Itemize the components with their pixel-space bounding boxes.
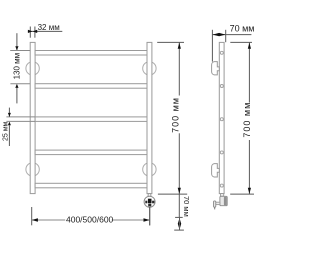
dimension 25mm: rail3 bottom line extended left	[6, 120, 35, 122]
side view: rung end circle 5	[220, 184, 223, 187]
heating element nut center	[148, 199, 152, 203]
dimension 70mm front-bottom: vertical diamond arrows	[178, 218, 181, 230]
side view: vertical tube	[219, 42, 224, 193]
dimension 32mm: right extension line	[34, 27, 36, 38]
side view: valve handle knob	[214, 201, 216, 207]
dimension 25mm: rail3 top line extended left	[6, 116, 35, 118]
dimension 400/500/600: left arrow	[32, 218, 38, 221]
dimension 130mm: lower arrow (up)	[15, 84, 18, 88]
dimension 700mm side: dimension line upper segment	[248, 42, 250, 102]
dimension 70mm front-bottom: lower extension line	[174, 229, 184, 231]
dimension 400/500/600: dimension line	[32, 219, 150, 221]
dimension 130mm: lower tail line	[16, 88, 18, 104]
side view: valve tail	[214, 207, 216, 209]
dimension 25mm: upper line	[8, 108, 10, 117]
side view: rung end circle 2	[220, 85, 223, 88]
left vertical tube (front view)	[30, 42, 35, 193]
dimension 700mm side: bottom extension line	[230, 193, 254, 195]
side view: valve handle stem	[215, 202, 220, 204]
heating element nut right lug	[152, 201, 154, 204]
dimension 70mm front-bottom: dimension line	[178, 194, 180, 217]
side view: lower wall bracket plate	[212, 164, 220, 177]
svg-text:700 мм: 700 мм	[242, 102, 252, 138]
dimension 400/500/600: right extension line	[149, 207, 151, 225]
svg-text:70 мм: 70 мм	[182, 196, 191, 217]
dimension 400/500/600: right arrow	[144, 218, 150, 221]
dimension 32mm: bowtie arrows	[28, 30, 37, 33]
side view: valve body	[220, 196, 227, 205]
heating element circle (TEN)	[144, 196, 155, 207]
side view: wall extension line	[211, 30, 213, 62]
rail 4	[35, 150, 147, 155]
heating element neck below right tube	[148, 194, 151, 197]
dimension 130mm: upper extension line (rail1 top extended)	[10, 50, 30, 52]
svg-text:25 мм: 25 мм	[2, 121, 9, 141]
bracket circle top-right	[143, 62, 156, 75]
rail 2	[35, 84, 147, 89]
svg-text:130 мм: 130 мм	[12, 53, 21, 80]
dimension 25mm: arrows diamond	[8, 113, 11, 125]
side view: upper wall bracket plate	[212, 62, 220, 75]
dimension 400/500/600: label background	[65, 215, 112, 224]
dimension 700mm side: top extension line	[230, 41, 252, 43]
svg-text:700 мм: 700 мм	[171, 97, 181, 133]
svg-text:400/500/600: 400/500/600	[66, 214, 114, 224]
dimension 400/500/600: left extension line	[31, 207, 33, 225]
dimension 700mm front: bottom arrow (down)	[178, 188, 181, 194]
dimension 700mm front: dimension line lower segment	[178, 133, 180, 194]
bracket circle top-left	[26, 62, 39, 75]
dimension 700mm side: top arrow (up)	[248, 43, 251, 49]
dimension 32mm: left extension line	[29, 27, 31, 38]
dimension 32mm: dimension line with tail	[28, 30, 62, 32]
dimension 70mm front-bottom: extension line	[175, 216, 183, 218]
side view: rung end circle 3	[220, 118, 223, 121]
dimension 25mm: lower tail line	[8, 125, 10, 146]
dimension 700mm front: bottom extension line	[158, 193, 187, 195]
side view: rung end circle 4	[220, 151, 223, 154]
heating element bottom lug	[148, 204, 151, 207]
dimension 130mm: upper dimension line	[16, 33, 18, 50]
side view: rung end circle 1	[220, 51, 223, 54]
dimension 130mm: lower extension line (rail2 top extended)	[10, 83, 30, 85]
side view: valve neck	[221, 194, 224, 197]
bracket circle bottom-left	[26, 163, 39, 176]
rail 5 (bottom horizontal tube)	[35, 183, 147, 188]
side view: right extension line of 70mm	[225, 30, 227, 42]
right vertical tube (front view)	[147, 42, 152, 193]
dimension 700mm side: dimension line lower segment	[248, 140, 250, 194]
bracket circle bottom-right	[143, 163, 156, 176]
dimension 700mm front: top extension line	[157, 41, 184, 43]
heating element nut left lug	[145, 201, 147, 204]
svg-text:32 мм: 32 мм	[38, 23, 60, 32]
svg-text:70 мм: 70 мм	[230, 24, 254, 34]
dimension 70mm side-top: diamond arrows	[213, 33, 226, 36]
dimension 70mm side-top: dimension line with tail	[212, 34, 251, 36]
rail 1 (top horizontal tube)	[35, 51, 147, 56]
dimension 700mm front: dimension line upper segment	[178, 42, 180, 95]
right extension line below TEN (400/500/600 + cable)	[149, 207, 151, 225]
dimension 700mm front: top arrow (up)	[178, 43, 181, 49]
dimension 130mm: upper arrow (down)	[15, 46, 18, 50]
side view: valve body shade	[224, 197, 227, 206]
dimension 700mm side: bottom arrow (down)	[248, 188, 251, 194]
rail 3	[35, 117, 147, 122]
